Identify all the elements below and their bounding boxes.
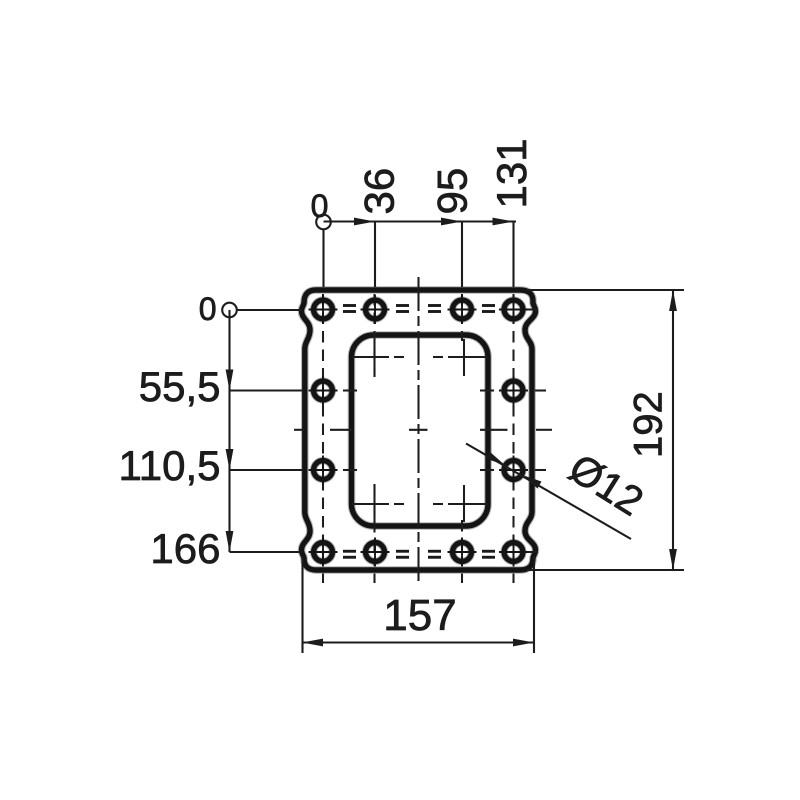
svg-text:131: 131 <box>488 138 535 208</box>
svg-text:36: 36 <box>356 168 403 215</box>
svg-text:55,5: 55,5 <box>139 363 221 410</box>
svg-text:157: 157 <box>383 591 456 640</box>
svg-text:0: 0 <box>199 291 217 327</box>
svg-text:95: 95 <box>429 168 476 215</box>
svg-text:0: 0 <box>311 188 329 224</box>
svg-text:192: 192 <box>627 391 671 458</box>
svg-text:110,5: 110,5 <box>119 442 221 489</box>
svg-text:166: 166 <box>150 525 220 572</box>
